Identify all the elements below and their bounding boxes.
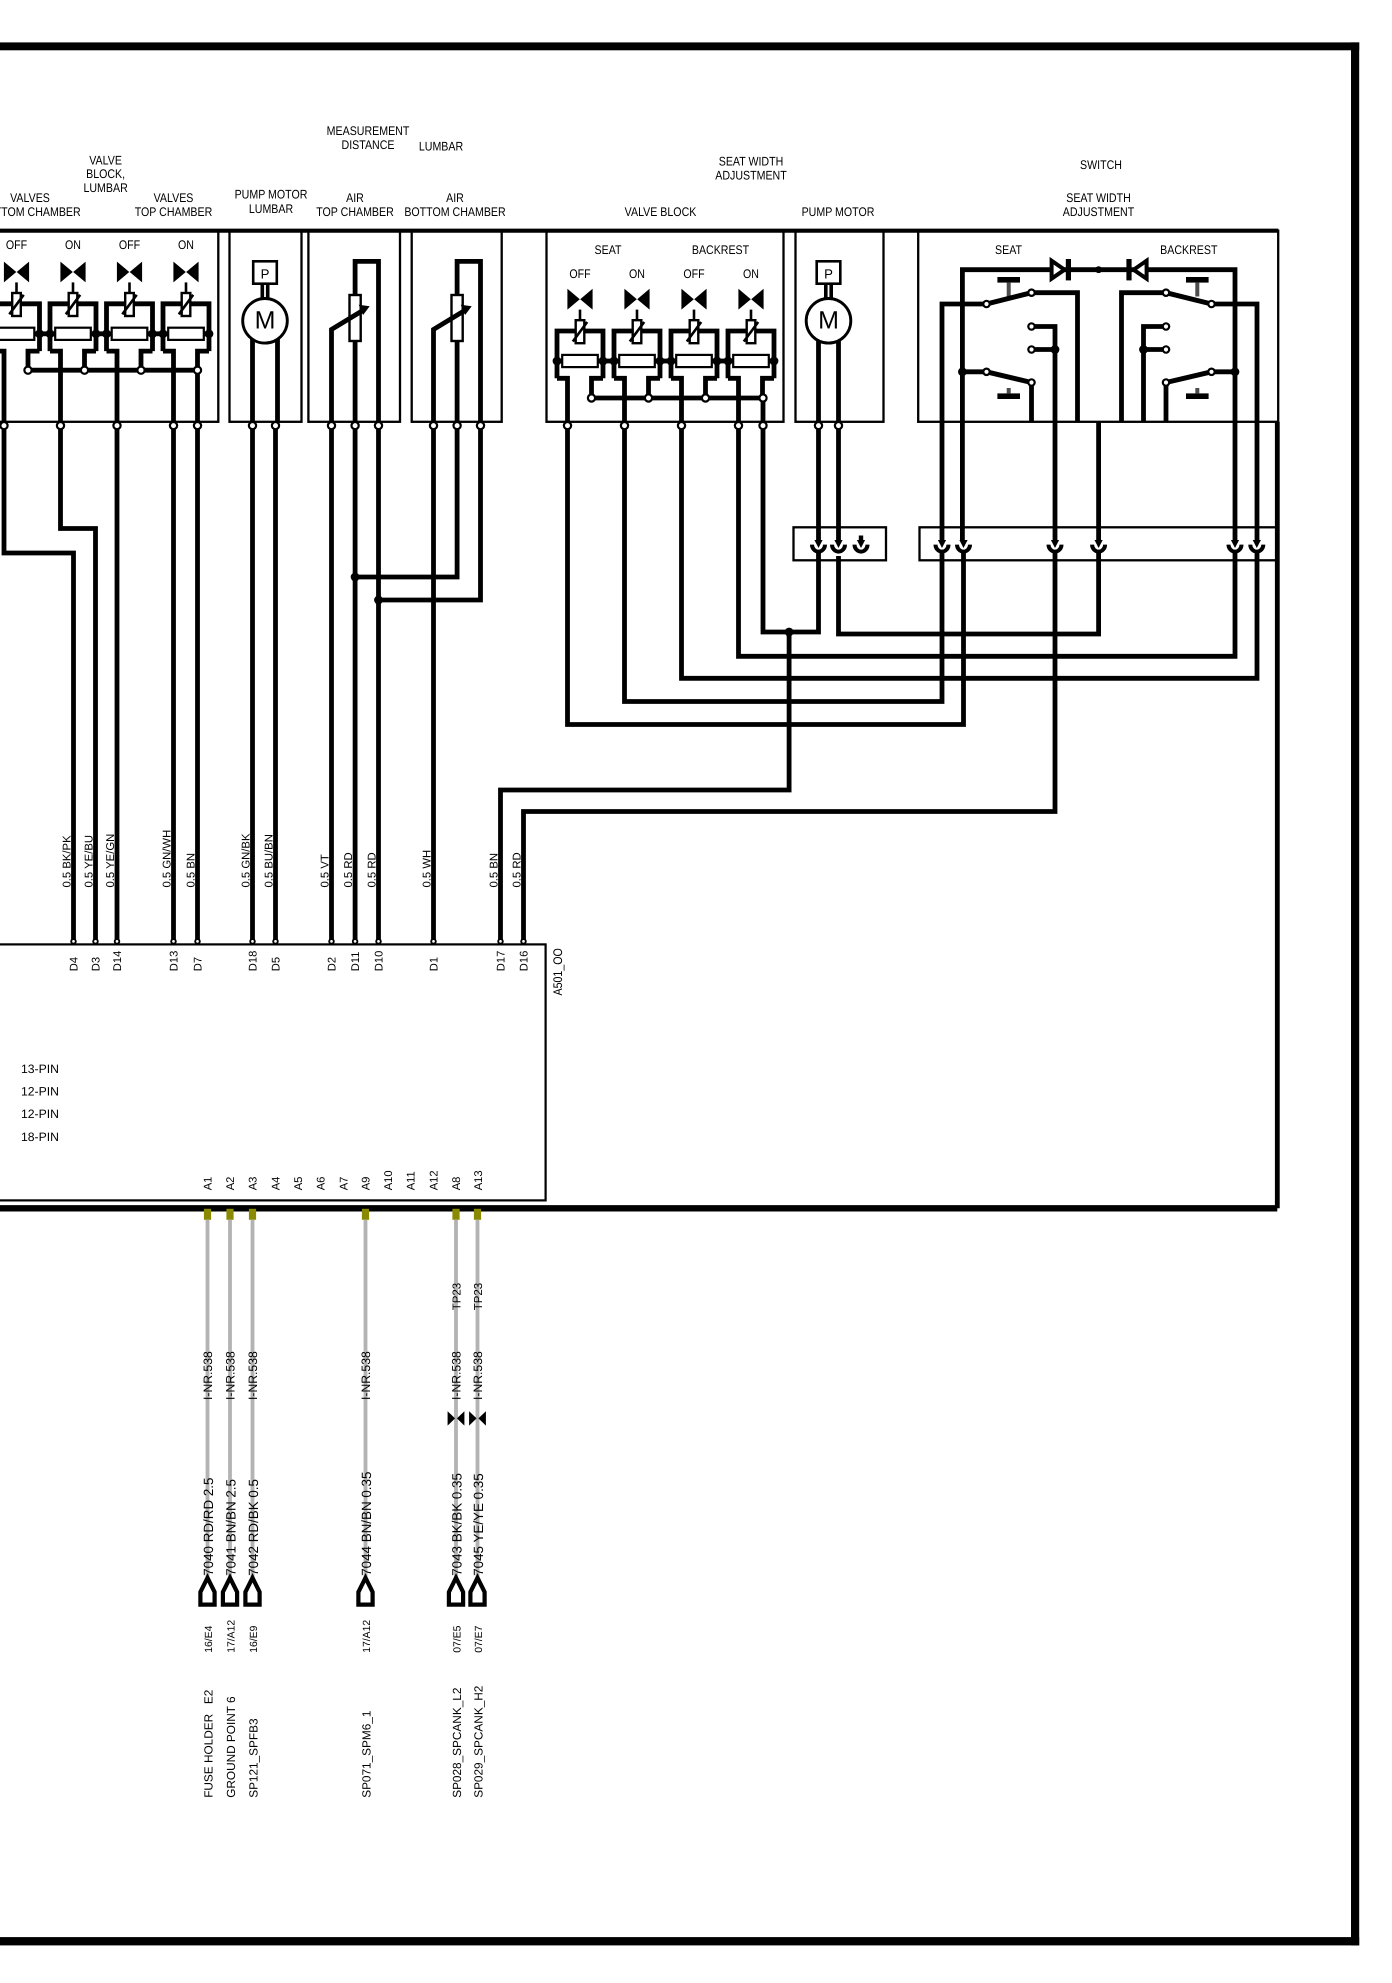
svg-text:D14: D14 xyxy=(112,951,124,972)
svg-text:GROUND POINT 6: GROUND POINT 6 xyxy=(224,1696,238,1798)
svg-text:7042 RD/BK 0.5: 7042 RD/BK 0.5 xyxy=(246,1479,261,1576)
svg-text:7041 BN/BN 2.5: 7041 BN/BN 2.5 xyxy=(223,1479,238,1576)
svg-text:D5: D5 xyxy=(270,957,282,971)
svg-text:I-NR.538: I-NR.538 xyxy=(224,1351,238,1400)
svg-text:A8: A8 xyxy=(451,1177,463,1191)
svg-text:0.5 BU/BN: 0.5 BU/BN xyxy=(263,834,275,887)
svg-text:0.5 VT: 0.5 VT xyxy=(319,854,331,887)
svg-text:12-PIN: 12-PIN xyxy=(21,1085,59,1099)
svg-text:BLOCK,: BLOCK, xyxy=(86,167,125,181)
svg-text:P: P xyxy=(261,267,270,282)
svg-text:SP029_SPCANK_H2: SP029_SPCANK_H2 xyxy=(471,1686,485,1798)
svg-text:17/A12: 17/A12 xyxy=(226,1620,237,1653)
svg-text:VALVE BLOCK: VALVE BLOCK xyxy=(625,205,697,219)
svg-text:AIR: AIR xyxy=(446,191,464,205)
svg-text:A10: A10 xyxy=(383,1170,395,1190)
svg-text:TP23: TP23 xyxy=(473,1283,485,1311)
svg-text:LUMBAR: LUMBAR xyxy=(249,202,293,216)
svg-text:SEAT: SEAT xyxy=(595,243,622,257)
svg-text:OFF: OFF xyxy=(569,267,591,281)
svg-text:I-NR.538: I-NR.538 xyxy=(201,1351,215,1400)
svg-text:0.5 BN: 0.5 BN xyxy=(488,853,500,888)
svg-text:16/E4: 16/E4 xyxy=(204,1625,215,1652)
svg-text:OFF: OFF xyxy=(119,238,141,252)
svg-text:SEAT WIDTH: SEAT WIDTH xyxy=(1066,191,1131,205)
svg-text:17/A12: 17/A12 xyxy=(362,1620,373,1653)
svg-text:SEAT WIDTH: SEAT WIDTH xyxy=(719,155,784,169)
svg-text:A12: A12 xyxy=(429,1170,441,1190)
svg-text:I-NR.538: I-NR.538 xyxy=(359,1351,373,1400)
svg-text:ADJUSTMENT: ADJUSTMENT xyxy=(715,169,787,183)
svg-text:TOP CHAMBER: TOP CHAMBER xyxy=(316,205,394,219)
svg-text:0.5 YE/GN: 0.5 YE/GN xyxy=(105,834,117,888)
svg-text:0.5 RD: 0.5 RD xyxy=(511,852,523,887)
svg-text:0.5 GN/WH: 0.5 GN/WH xyxy=(161,830,173,888)
svg-text:ON: ON xyxy=(743,267,759,281)
svg-text:0.5 YE/BU: 0.5 YE/BU xyxy=(83,835,95,888)
svg-text:SP121_SPFB3: SP121_SPFB3 xyxy=(246,1718,260,1798)
svg-text:LUMBAR: LUMBAR xyxy=(83,181,127,195)
svg-text:07/E7: 07/E7 xyxy=(474,1625,485,1652)
svg-text:7043 BK/BK 0.35: 7043 BK/BK 0.35 xyxy=(449,1473,464,1576)
svg-text:A3: A3 xyxy=(248,1177,260,1191)
svg-text:TOP CHAMBER: TOP CHAMBER xyxy=(135,205,213,219)
svg-text:0.5 RD: 0.5 RD xyxy=(366,852,378,887)
svg-text:I-NR.538: I-NR.538 xyxy=(450,1351,464,1400)
svg-text:TP23: TP23 xyxy=(451,1283,463,1311)
svg-text:VALVES: VALVES xyxy=(10,191,50,205)
svg-text:BOTTOM CHAMBER: BOTTOM CHAMBER xyxy=(0,205,81,219)
svg-text:A6: A6 xyxy=(316,1177,328,1191)
svg-text:ON: ON xyxy=(629,267,645,281)
svg-text:16/E9: 16/E9 xyxy=(249,1625,260,1652)
svg-text:SWITCH: SWITCH xyxy=(1080,158,1122,172)
svg-text:A5: A5 xyxy=(293,1177,305,1191)
svg-text:OFF: OFF xyxy=(6,238,28,252)
svg-text:MEASUREMENT: MEASUREMENT xyxy=(327,124,410,138)
svg-text:0.5 WH: 0.5 WH xyxy=(421,850,433,888)
svg-text:A11: A11 xyxy=(406,1171,418,1190)
svg-text:BOTTOM CHAMBER: BOTTOM CHAMBER xyxy=(404,205,505,219)
svg-text:AIR: AIR xyxy=(346,191,364,205)
svg-text:M: M xyxy=(255,307,276,335)
svg-text:I-NR.538: I-NR.538 xyxy=(246,1351,260,1400)
svg-text:ADJUSTMENT: ADJUSTMENT xyxy=(1063,205,1135,219)
svg-text:PUMP MOTOR: PUMP MOTOR xyxy=(802,205,875,219)
svg-text:DISTANCE: DISTANCE xyxy=(342,138,395,152)
svg-text:M: M xyxy=(818,307,839,335)
svg-text:7040 RD/RD 2.5: 7040 RD/RD 2.5 xyxy=(201,1478,216,1576)
svg-text:D4: D4 xyxy=(68,957,80,971)
svg-text:0.5 GN/BK: 0.5 GN/BK xyxy=(240,833,252,887)
svg-text:A501_OO: A501_OO xyxy=(551,948,565,995)
svg-text:13-PIN: 13-PIN xyxy=(21,1062,59,1076)
svg-text:D11: D11 xyxy=(350,951,362,971)
svg-text:0.5 BK/PK: 0.5 BK/PK xyxy=(61,835,73,888)
svg-text:VALVES: VALVES xyxy=(154,191,194,205)
svg-text:A9: A9 xyxy=(361,1177,373,1191)
svg-text:0.5 BN: 0.5 BN xyxy=(185,853,197,888)
svg-text:A2: A2 xyxy=(225,1177,237,1191)
svg-text:D10: D10 xyxy=(373,951,385,972)
svg-text:D17: D17 xyxy=(495,951,507,972)
svg-text:0.5 RD: 0.5 RD xyxy=(343,852,355,887)
svg-text:D16: D16 xyxy=(518,951,530,972)
svg-text:VALVE: VALVE xyxy=(89,154,122,168)
svg-text:OFF: OFF xyxy=(683,267,705,281)
svg-text:7044 BN/BN 0.35: 7044 BN/BN 0.35 xyxy=(359,1472,374,1576)
svg-text:SP028_SPCANK_L2: SP028_SPCANK_L2 xyxy=(450,1688,464,1798)
svg-text:BACKREST: BACKREST xyxy=(1160,243,1218,257)
svg-text:D1: D1 xyxy=(428,957,440,971)
svg-text:BACKREST: BACKREST xyxy=(692,243,750,257)
svg-text:D18: D18 xyxy=(247,951,259,972)
svg-text:ON: ON xyxy=(65,238,81,252)
svg-text:07/E5: 07/E5 xyxy=(452,1625,463,1652)
svg-text:P: P xyxy=(824,267,833,282)
svg-text:D13: D13 xyxy=(168,951,180,972)
svg-text:PUMP MOTOR: PUMP MOTOR xyxy=(235,188,308,202)
svg-text:SEAT: SEAT xyxy=(995,243,1022,257)
svg-text:LUMBAR: LUMBAR xyxy=(419,140,463,154)
svg-text:18-PIN: 18-PIN xyxy=(21,1130,59,1144)
svg-text:D7: D7 xyxy=(192,957,204,971)
svg-text:D3: D3 xyxy=(90,957,102,971)
svg-text:A1: A1 xyxy=(203,1177,215,1191)
svg-text:D2: D2 xyxy=(326,957,338,971)
svg-text:7045 YE/YE 0.35: 7045 YE/YE 0.35 xyxy=(471,1473,486,1576)
svg-text:A13: A13 xyxy=(473,1170,485,1190)
svg-text:ON: ON xyxy=(178,238,194,252)
svg-text:12-PIN: 12-PIN xyxy=(21,1107,59,1121)
svg-text:A4: A4 xyxy=(271,1177,283,1191)
svg-text:A7: A7 xyxy=(339,1177,351,1191)
svg-text:SP071_SPM6_1: SP071_SPM6_1 xyxy=(359,1711,373,1798)
svg-text:FUSE HOLDER E2: FUSE HOLDER E2 xyxy=(201,1690,215,1798)
svg-text:I-NR.538: I-NR.538 xyxy=(471,1351,485,1400)
